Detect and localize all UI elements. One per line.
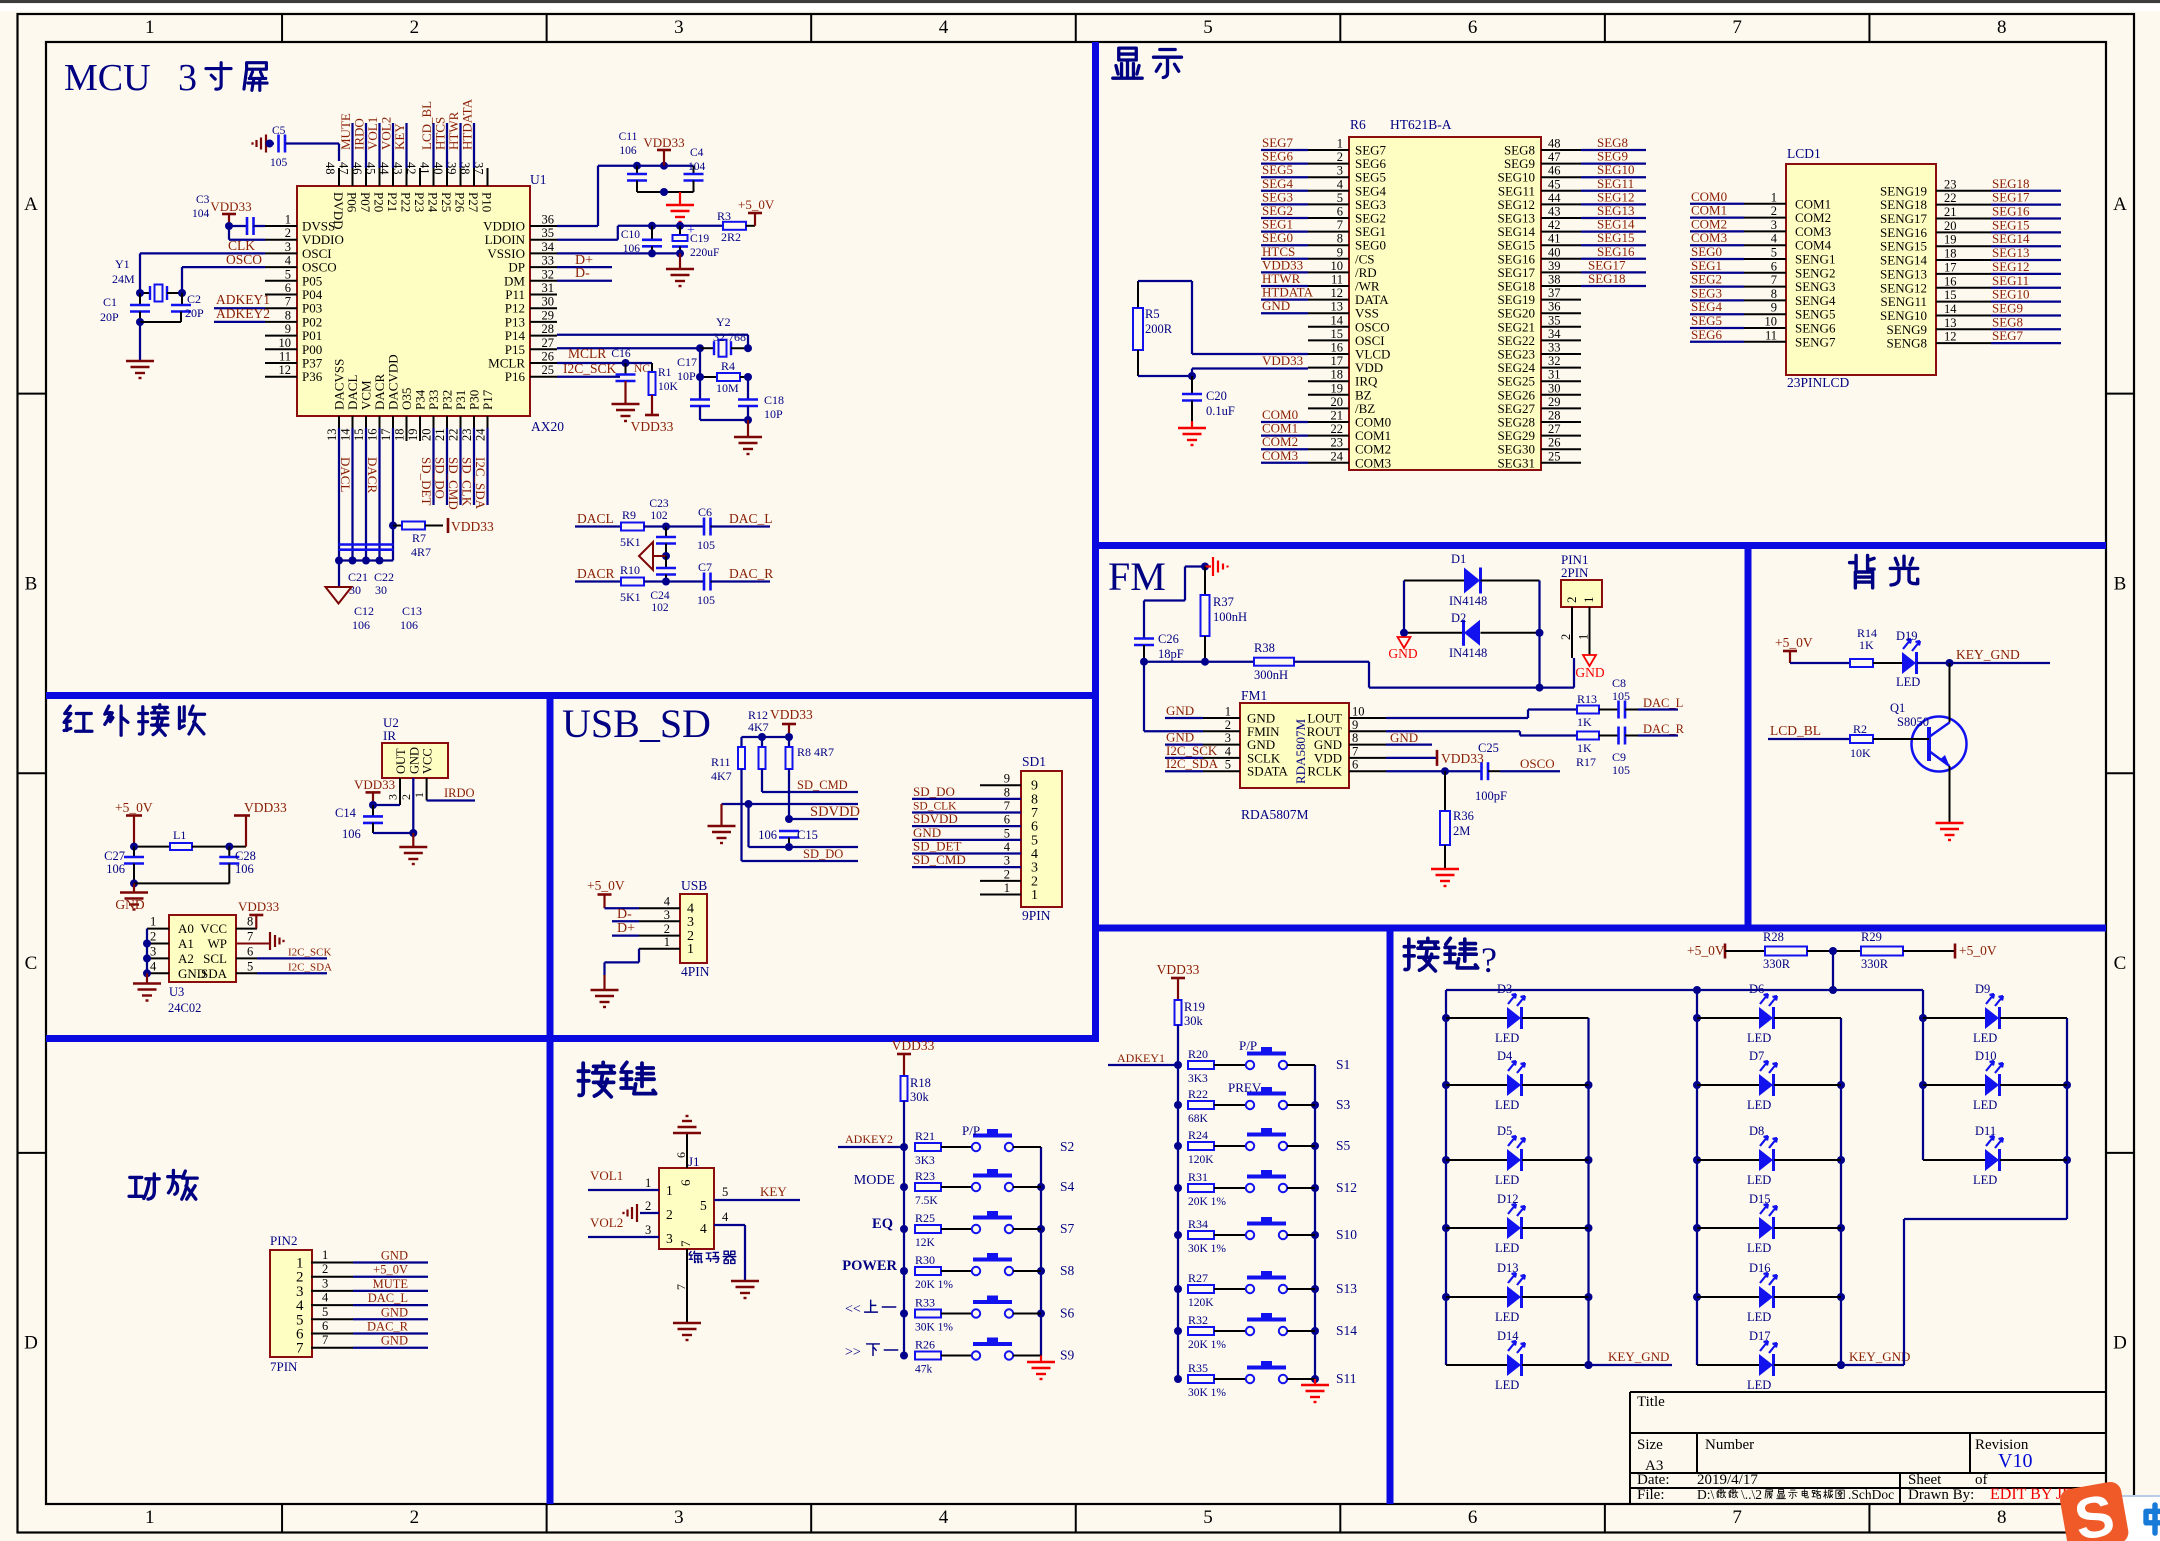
svg-text:SEG3: SEG3	[1691, 285, 1722, 300]
resistor R32 20K 1%	[1188, 1313, 1246, 1351]
svg-text:PREV: PREV	[1228, 1080, 1262, 1095]
label 下一 next	[845, 1344, 898, 1360]
svg-text:1: 1	[150, 915, 156, 929]
svg-text:.SchDoc: .SchDoc	[1848, 1487, 1894, 1502]
wire R38 to antenna node	[1294, 658, 1574, 692]
svg-text:30: 30	[349, 583, 361, 597]
svg-text:38: 38	[1548, 273, 1561, 287]
MCU U1 AX20 chip body	[297, 172, 564, 434]
svg-text:P06: P06	[345, 192, 360, 213]
svg-text:33: 33	[1548, 341, 1561, 355]
svg-text:22: 22	[447, 429, 461, 442]
svg-text:2: 2	[1004, 867, 1010, 881]
svg-text:COM2: COM2	[1691, 216, 1727, 231]
svg-text:C15: C15	[797, 828, 818, 842]
svg-text:6: 6	[285, 281, 291, 295]
svg-text:R17: R17	[1576, 755, 1596, 769]
wire pin34 VSSIO rail	[557, 249, 684, 257]
R6 right pins 48-25	[1497, 137, 1581, 471]
svg-text:4K7: 4K7	[748, 720, 769, 734]
svg-text:Sheet: Sheet	[1908, 1472, 1942, 1488]
title 功放	[129, 1170, 197, 1199]
svg-text:2R2: 2R2	[721, 230, 741, 244]
svg-text:A2: A2	[178, 951, 194, 966]
capacitor C22 30 on DACR	[366, 545, 395, 598]
svg-text:30k: 30k	[1184, 1014, 1204, 1028]
svg-text:21: 21	[1944, 205, 1957, 219]
svg-text:SENG8: SENG8	[1887, 336, 1927, 351]
svg-text:29: 29	[1548, 395, 1561, 409]
net label DACL	[575, 511, 621, 527]
svg-text:11: 11	[279, 350, 291, 364]
svg-text:LED: LED	[1495, 1378, 1519, 1392]
svg-text:D14: D14	[1497, 1329, 1519, 1343]
top browser bar	[0, 0, 2160, 3]
capacitor C27 106	[104, 847, 144, 888]
svg-text:SENG13: SENG13	[1880, 266, 1927, 281]
resistor R8 4R7	[786, 745, 835, 769]
svg-text:DACR: DACR	[365, 457, 380, 493]
svg-text:R26: R26	[915, 1338, 935, 1352]
svg-text:1: 1	[1581, 597, 1596, 604]
svg-text:8: 8	[1997, 17, 2007, 38]
push button S2	[972, 1129, 1041, 1151]
svg-text:HTDATA: HTDATA	[460, 98, 475, 150]
svg-text:A: A	[24, 194, 38, 215]
svg-text:1: 1	[1577, 634, 1591, 640]
LED D10	[1923, 1049, 2067, 1112]
net label SD_CMD pullup	[762, 769, 858, 792]
svg-text:R36: R36	[1453, 809, 1474, 823]
resistor R27 120K	[1188, 1271, 1246, 1309]
net label DAC_L	[712, 511, 773, 527]
svg-text:VDD33: VDD33	[1262, 353, 1303, 368]
svg-text:A0: A0	[178, 921, 194, 936]
svg-text:SEG2: SEG2	[1691, 272, 1722, 287]
resistor R1 10K	[649, 363, 679, 415]
resistor R30 20K 1%	[915, 1253, 971, 1291]
svg-text:34: 34	[1548, 327, 1561, 341]
svg-text:+5_0V: +5_0V	[738, 197, 775, 212]
J1 inside pin numbers	[666, 1179, 707, 1247]
svg-text:0.1uF: 0.1uF	[1206, 404, 1235, 418]
svg-text:29: 29	[542, 308, 555, 322]
net label I2C_SDA U3	[257, 962, 332, 974]
svg-text:3: 3	[666, 1231, 673, 1246]
svg-text:4K7: 4K7	[711, 769, 732, 783]
svg-text:C6: C6	[698, 505, 712, 519]
svg-text:2: 2	[399, 794, 413, 800]
resistor R28 330R	[1763, 930, 1861, 971]
svg-text:23: 23	[1331, 436, 1344, 450]
svg-text:GND: GND	[1575, 665, 1604, 680]
svg-text:3: 3	[1771, 218, 1777, 232]
svg-text:20: 20	[1331, 395, 1344, 409]
svg-text:24M: 24M	[112, 272, 135, 286]
net label KEY_GND column1	[1585, 1349, 1673, 1369]
svg-text:31: 31	[1548, 368, 1561, 382]
svg-text:SEG8: SEG8	[1992, 314, 2023, 329]
svg-text:34: 34	[542, 240, 555, 254]
push button S6	[972, 1296, 1041, 1318]
svg-text:S11: S11	[1336, 1371, 1357, 1386]
svg-text:7.5K: 7.5K	[915, 1195, 938, 1207]
svg-text:R3: R3	[717, 209, 731, 223]
capacitor C18 10P	[738, 377, 784, 424]
svg-text:300nH: 300nH	[1254, 668, 1288, 682]
resistor R11 4K7	[711, 747, 745, 783]
svg-text:ADKEY2: ADKEY2	[216, 306, 270, 321]
svg-text:10: 10	[1765, 315, 1778, 329]
svg-text:43: 43	[1548, 205, 1561, 219]
svg-text:KEY_GND: KEY_GND	[1956, 647, 2020, 662]
LED D6	[1697, 982, 1841, 1045]
svg-text:D8: D8	[1749, 1124, 1764, 1138]
svg-text:I2C_SDA: I2C_SDA	[473, 457, 488, 510]
resistor R3 2R2	[717, 209, 755, 244]
svg-text:5: 5	[722, 1185, 728, 1199]
svg-text:L1: L1	[173, 828, 186, 842]
svg-text:C11: C11	[619, 131, 638, 143]
svg-text:C4: C4	[690, 147, 704, 159]
ADKEY2 ladder right rail	[1037, 1147, 1045, 1356]
svg-text:106: 106	[619, 145, 637, 157]
svg-text:5K1: 5K1	[620, 535, 641, 549]
power port VDD33 R18	[892, 1038, 935, 1076]
svg-text:1: 1	[645, 1176, 651, 1190]
push button S9	[972, 1338, 1041, 1360]
svg-text:20: 20	[420, 429, 434, 442]
svg-text:S8: S8	[1060, 1263, 1075, 1278]
LED D9	[1923, 982, 2067, 1045]
svg-text:33: 33	[542, 254, 555, 268]
svg-text:D1: D1	[1451, 552, 1466, 566]
svg-text:SDVDD: SDVDD	[810, 804, 860, 820]
svg-text:SD_CLK: SD_CLK	[460, 457, 475, 507]
resistor R35 30K 1%	[1188, 1361, 1246, 1399]
svg-text:VCC: VCC	[421, 748, 435, 774]
svg-text:1: 1	[1031, 888, 1038, 903]
svg-text:SENG1: SENG1	[1795, 252, 1835, 267]
svg-text:C25: C25	[1478, 741, 1499, 755]
svg-text:1: 1	[322, 1248, 328, 1262]
svg-text:Drawn By:: Drawn By:	[1908, 1487, 1974, 1503]
svg-text:2: 2	[664, 922, 670, 936]
svg-text:5K1: 5K1	[620, 590, 641, 604]
svg-text:P20: P20	[372, 192, 387, 212]
resistor R24 120K	[1188, 1128, 1246, 1166]
svg-text:IN4148: IN4148	[1449, 646, 1487, 660]
svg-text:7: 7	[1732, 17, 1742, 38]
svg-text:SENG12: SENG12	[1880, 280, 1927, 295]
net label IRDO	[427, 786, 475, 801]
svg-text:R20: R20	[1188, 1047, 1208, 1061]
svg-text:SEG16: SEG16	[1992, 204, 2030, 219]
svg-text:19: 19	[1331, 381, 1344, 395]
wire USB pin1 to ground	[591, 949, 640, 1007]
svg-text:P21: P21	[385, 192, 400, 212]
svg-text:21: 21	[1331, 409, 1344, 423]
net label I2C_SCK U3	[257, 947, 331, 959]
svg-text:P26: P26	[453, 192, 468, 213]
svg-text:105: 105	[1612, 689, 1630, 703]
svg-text:68K: 68K	[1188, 1113, 1209, 1125]
file path text	[1697, 1487, 1894, 1502]
resistor R9 5K1	[620, 508, 670, 549]
push button S13	[1246, 1271, 1357, 1296]
svg-text:\..\2: \..\2	[1741, 1487, 1762, 1502]
svg-text:100nH: 100nH	[1213, 610, 1247, 624]
svg-text:GND: GND	[407, 747, 421, 774]
svg-text:106: 106	[400, 618, 418, 632]
svg-text:35: 35	[1548, 313, 1561, 327]
svg-text:3: 3	[1225, 731, 1231, 745]
svg-text:R30: R30	[915, 1253, 935, 1267]
net label D- USB	[612, 907, 639, 922]
svg-text:120K: 120K	[1188, 1297, 1214, 1309]
LED matrix top rail	[1446, 951, 1923, 994]
svg-text:LED: LED	[1495, 1098, 1519, 1112]
sheet ground J1 pin2	[624, 1199, 660, 1222]
resistor R10 5K1	[620, 563, 666, 604]
svg-text:106: 106	[235, 862, 254, 876]
svg-text:32.768: 32.768	[713, 330, 746, 344]
net label D- on pin 32	[557, 266, 612, 281]
svg-text:C1: C1	[103, 295, 117, 309]
svg-text:3K3: 3K3	[1188, 1073, 1208, 1085]
svg-text:LED: LED	[1973, 1173, 1997, 1187]
svg-text:44: 44	[1548, 191, 1561, 205]
LED D13	[1446, 1261, 1589, 1324]
svg-text:D6: D6	[1749, 982, 1764, 996]
svg-text:6: 6	[678, 1179, 693, 1186]
svg-text:V10: V10	[1998, 1450, 2032, 1472]
capacitor C6 105	[666, 505, 715, 552]
svg-text:17: 17	[1331, 354, 1344, 368]
svg-text:R27: R27	[1188, 1271, 1208, 1285]
svg-text:VOL2: VOL2	[590, 1215, 623, 1230]
svg-text:15: 15	[352, 429, 366, 442]
GND arrow left	[1388, 637, 1417, 661]
svg-text:DAC_L: DAC_L	[1643, 696, 1683, 710]
svg-text:VDD33: VDD33	[354, 777, 395, 792]
svg-text:R2: R2	[1853, 722, 1867, 736]
svg-text:D12: D12	[1497, 1192, 1519, 1206]
svg-text:2: 2	[1771, 204, 1777, 218]
net label KEY J1 pin5	[714, 1184, 800, 1200]
svg-text:3: 3	[674, 1507, 684, 1528]
svg-text:1K: 1K	[1577, 715, 1592, 729]
inductor R38 300nH	[1144, 641, 1294, 682]
key function labels MODE EQ POWER	[842, 1173, 897, 1274]
svg-text:106: 106	[352, 618, 370, 632]
svg-text:13: 13	[1944, 316, 1957, 330]
LCD1 left pins 1-11 COM0-COM3 SEG0-SEG6	[1690, 189, 1836, 349]
svg-text:R29: R29	[1861, 930, 1882, 944]
svg-text:COM0: COM0	[1691, 189, 1727, 204]
ground under C18	[734, 420, 762, 454]
svg-text:SENG10: SENG10	[1880, 308, 1927, 323]
svg-text:21: 21	[433, 429, 447, 442]
svg-text:30K 1%: 30K 1%	[915, 1322, 953, 1334]
svg-text:R10: R10	[620, 563, 640, 577]
svg-text:30k: 30k	[910, 1090, 930, 1104]
svg-text:10: 10	[279, 336, 292, 350]
wire pin35 LDOIN rail	[557, 222, 723, 240]
svg-text:6: 6	[322, 1319, 328, 1333]
svg-text:1: 1	[666, 1183, 673, 1198]
svg-text:6: 6	[247, 944, 253, 958]
svg-text:D13: D13	[1497, 1261, 1519, 1275]
svg-text:SD1: SD1	[1022, 754, 1046, 769]
power port +5_0V right of R3	[738, 197, 775, 226]
red ground ADKEY1 ladder	[1301, 1379, 1329, 1402]
red ground under C4	[666, 192, 694, 222]
svg-text:+5_0V: +5_0V	[373, 1263, 408, 1277]
svg-text:32: 32	[1548, 354, 1561, 368]
svg-text:R7: R7	[412, 531, 426, 545]
svg-text:MUTE: MUTE	[373, 1277, 409, 1291]
svg-text:D11: D11	[1975, 1124, 1996, 1138]
svg-text:3: 3	[285, 240, 291, 254]
svg-text:P25: P25	[439, 192, 454, 212]
svg-text:COM3: COM3	[1262, 448, 1298, 463]
svg-text:SEG13: SEG13	[1992, 245, 2030, 260]
svg-text:D: D	[24, 1333, 38, 1354]
svg-text:12: 12	[1944, 330, 1957, 344]
LED column rails D3-D14	[1442, 990, 1593, 1369]
svg-text:C20: C20	[1206, 389, 1227, 403]
svg-text:2019/4/17: 2019/4/17	[1697, 1472, 1758, 1488]
svg-text:Date:: Date:	[1637, 1472, 1669, 1488]
svg-text:330R: 330R	[1763, 957, 1791, 971]
svg-text:R8 4R7: R8 4R7	[797, 745, 834, 759]
svg-text:22: 22	[1944, 191, 1957, 205]
resistor R31 20K 1%	[1188, 1170, 1246, 1208]
svg-text:7: 7	[1337, 218, 1343, 232]
svg-text:D-: D-	[617, 907, 632, 922]
orange S logo watermark	[2058, 1480, 2130, 1541]
svg-text:GND: GND	[381, 1249, 408, 1263]
net label OSCO FM	[1500, 756, 1560, 771]
svg-text:14: 14	[1331, 313, 1344, 327]
svg-text:6: 6	[1004, 813, 1010, 827]
svg-text:A: A	[2113, 194, 2127, 215]
svg-text:7: 7	[1352, 744, 1358, 758]
svg-text:D19: D19	[1896, 629, 1918, 643]
svg-text:4: 4	[664, 895, 671, 909]
resistor R25 12K	[915, 1211, 971, 1249]
capacitor C11 106	[619, 131, 647, 192]
svg-text:2: 2	[322, 1262, 328, 1276]
svg-text:S7: S7	[1060, 1221, 1075, 1236]
svg-text:SDATA: SDATA	[1247, 764, 1288, 779]
svg-text:C21: C21	[348, 570, 368, 584]
net label DAC_R	[712, 566, 773, 582]
svg-text:SENG5: SENG5	[1795, 307, 1835, 322]
svg-text:39: 39	[1548, 259, 1561, 273]
svg-text:LED: LED	[1747, 1098, 1771, 1112]
push button S12	[1246, 1170, 1357, 1195]
svg-text:5: 5	[1203, 1507, 1213, 1528]
svg-text:2: 2	[666, 1207, 673, 1222]
IR receiver U2 IR body	[382, 715, 448, 778]
capacitor C9 105	[1612, 727, 1638, 778]
svg-text:AX20: AX20	[531, 419, 564, 434]
svg-text:18: 18	[393, 429, 407, 442]
svg-text:GND: GND	[1388, 646, 1417, 661]
push button S10	[1246, 1217, 1357, 1242]
svg-text:3: 3	[687, 915, 694, 930]
svg-text:VDD33: VDD33	[244, 800, 287, 815]
svg-text:+5_0V: +5_0V	[115, 800, 153, 815]
svg-text:D10: D10	[1975, 1049, 1997, 1063]
svg-text:1K: 1K	[1859, 638, 1874, 652]
svg-text:R5: R5	[1145, 307, 1160, 321]
svg-text:3: 3	[645, 1223, 651, 1237]
svg-text:D7: D7	[1749, 1049, 1764, 1063]
svg-text:USB_SD: USB_SD	[562, 701, 711, 746]
svg-text:31: 31	[542, 281, 555, 295]
svg-text:3: 3	[386, 794, 400, 800]
power port VDD33 pullups	[770, 707, 813, 737]
resistor R20 3K3	[1188, 1047, 1246, 1085]
svg-text:3: 3	[322, 1276, 328, 1290]
svg-text:S1: S1	[1336, 1057, 1350, 1072]
svg-text:7: 7	[1732, 1507, 1742, 1528]
svg-text:SEG7: SEG7	[1992, 328, 2024, 343]
red ground under R36	[1431, 869, 1459, 886]
svg-text:6: 6	[1468, 1507, 1478, 1528]
svg-text:SD_CMD: SD_CMD	[797, 778, 848, 792]
svg-text:SENG9: SENG9	[1887, 322, 1927, 337]
svg-text:10K: 10K	[658, 381, 679, 393]
svg-text:Y2: Y2	[716, 315, 731, 329]
svg-text:D16: D16	[1749, 1261, 1771, 1275]
LED D14	[1446, 1329, 1589, 1392]
svg-text:D+: D+	[617, 921, 635, 936]
svg-text:SD_DET: SD_DET	[419, 457, 434, 505]
svg-text:SD_DO: SD_DO	[913, 784, 955, 799]
J1 pin4 to ground	[714, 1210, 759, 1298]
svg-text:<<: <<	[845, 1302, 861, 1317]
svg-text:SEG6: SEG6	[1691, 327, 1723, 342]
svg-text:VDD33: VDD33	[451, 519, 494, 534]
svg-text:C27: C27	[104, 849, 125, 863]
net label OSCO on pin 4	[182, 252, 265, 267]
LED D11	[1923, 1124, 2067, 1187]
svg-text:105: 105	[1612, 763, 1630, 777]
ground under C16	[612, 404, 640, 421]
resistor R23 7.5K	[915, 1169, 971, 1207]
svg-text:32: 32	[542, 267, 555, 281]
svg-text:7: 7	[296, 1341, 304, 1357]
svg-text:C3: C3	[196, 194, 210, 206]
power port VDD33 above C4	[643, 135, 684, 166]
sheet ground U3 WP pin7	[236, 932, 284, 950]
FM1 pins 1-5 and 10-6	[1203, 705, 1386, 779]
crystal Y2 32.768	[700, 315, 752, 357]
svg-text:SD_CMD: SD_CMD	[446, 457, 461, 510]
svg-text:7: 7	[285, 295, 291, 309]
svg-text:VDD33: VDD33	[1157, 962, 1200, 977]
svg-text:SEG9: SEG9	[1992, 300, 2023, 315]
svg-text:SD_DO: SD_DO	[803, 847, 843, 861]
svg-text:?: ?	[1481, 940, 1497, 980]
svg-text:SENG19: SENG19	[1880, 183, 1927, 198]
svg-text:GND: GND	[1166, 703, 1194, 718]
svg-text:SCL: SCL	[203, 951, 227, 966]
